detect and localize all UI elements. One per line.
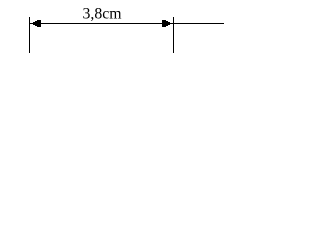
right arrowhead bbox=[162, 20, 173, 27]
dimension line (shaft and right leader, row 23) bbox=[29, 23, 224, 24]
left arrowhead bbox=[30, 20, 41, 27]
left extension line bbox=[29, 17, 30, 53]
right extension line bbox=[173, 17, 174, 53]
svg-text:3,8cm: 3,8cm bbox=[83, 6, 123, 23]
